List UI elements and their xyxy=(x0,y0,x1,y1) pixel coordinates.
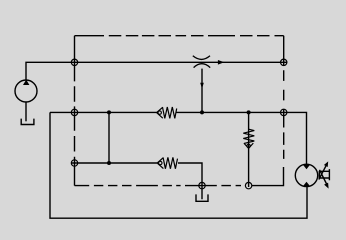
flow control orifice lower arc xyxy=(194,64,211,68)
enclosure top edge (dashed) xyxy=(75,35,284,37)
enclosure left edge (dashed) xyxy=(74,36,76,186)
junction dot D xyxy=(107,161,111,165)
motor rotation arrow up xyxy=(319,161,328,179)
port circle bottom right xyxy=(245,182,251,188)
arrow down on branch xyxy=(200,83,204,89)
enclosure right edge (dashed) xyxy=(283,36,285,159)
pump P1 xyxy=(15,80,37,102)
tank T1 xyxy=(21,119,34,125)
port circle P-in left top xyxy=(71,59,77,65)
motor M1 xyxy=(295,164,317,186)
motor rotation arrow down xyxy=(320,170,329,189)
port circle left bottom xyxy=(71,160,77,166)
wire pump suction xyxy=(25,102,27,121)
wire vertical x=109 xyxy=(108,112,110,163)
wire left return line y=112 xyxy=(50,111,157,113)
port circle left middle xyxy=(71,109,77,115)
tank T2 xyxy=(196,194,208,201)
spring S3 xyxy=(243,129,254,148)
port circle right middle xyxy=(281,109,287,115)
motor shaft xyxy=(319,169,329,180)
spring S1 xyxy=(157,107,177,118)
wire outer return loop xyxy=(50,112,307,218)
enclosure bottom edge (dashed) xyxy=(75,185,242,187)
wire x=248.6 relief branch xyxy=(248,112,250,187)
wire y=163 to drain tank xyxy=(178,163,202,199)
junction dot B xyxy=(200,110,204,114)
wire pump outlet to top line xyxy=(26,62,287,80)
wire orifice branch down xyxy=(201,69,203,113)
junction dot C xyxy=(247,110,251,114)
wire y=112 right section to motor xyxy=(177,112,307,164)
spring S2 xyxy=(157,157,177,168)
port circle right top xyxy=(281,59,287,65)
wire y=163 line xyxy=(72,162,158,164)
wire drain to right riser xyxy=(252,167,284,186)
flow control orifice upper arc xyxy=(193,56,210,60)
port circle bottom drain xyxy=(199,182,205,188)
junction dot A xyxy=(107,110,111,114)
arrow right on top line xyxy=(218,60,224,65)
